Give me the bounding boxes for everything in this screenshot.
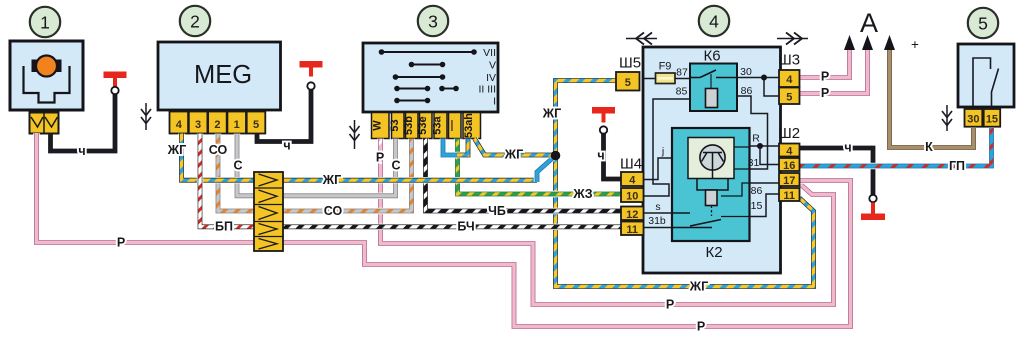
svg-text:10: 10 — [626, 191, 638, 203]
junction dot of ZhG net — [551, 151, 561, 161]
svg-text:ЖГ: ЖГ — [322, 173, 341, 187]
svg-text:11: 11 — [626, 224, 638, 236]
svg-text:I: I — [493, 96, 496, 108]
svg-text:Р: Р — [666, 298, 674, 312]
svg-text:Ш5: Ш5 — [619, 55, 641, 72]
K2 lead 86 to Sh2-17 — [750, 182, 780, 184]
relay labels K6 K2 F9 — [659, 48, 723, 262]
connector pins of component 2: 4 3 2 1 5 — [170, 112, 266, 134]
svg-text:ЖГ: ЖГ — [504, 148, 523, 162]
wire GP blue-red from Sh2-16 to comp5 pin 15 — [800, 128, 992, 166]
svg-text:5: 5 — [978, 13, 988, 33]
K6 lead 30 to Sh3 pins with junction dot — [737, 75, 779, 97]
svg-text:Р: Р — [821, 86, 829, 100]
right double-arrow mark above component 4 — [777, 33, 808, 45]
connector Sh3 pins 4 5 — [779, 70, 800, 104]
svg-text:+: + — [911, 37, 919, 52]
svg-text:II III: II III — [478, 84, 496, 96]
svg-text:Ш4: Ш4 — [620, 156, 642, 173]
wire labels left section — [78, 139, 290, 250]
svg-text:Р: Р — [117, 236, 125, 250]
svg-text:СО: СО — [324, 204, 343, 218]
svg-text:4: 4 — [176, 119, 183, 131]
wire ZhG from comp2 pin 4 through junction block to dot via blue elbow — [182, 134, 556, 183]
svg-text:4: 4 — [629, 175, 636, 187]
connector group labels Sh5 Sh4 Sh3 Sh2 — [619, 52, 800, 173]
svg-text:31b: 31b — [648, 215, 666, 227]
svg-text:3: 3 — [195, 119, 201, 131]
svg-text:86: 86 — [741, 85, 753, 97]
wire R pink from Sh3-5 to up-arrow A — [800, 48, 868, 94]
svg-text:11: 11 — [783, 190, 795, 202]
svg-text:БЧ: БЧ — [457, 220, 474, 234]
wire SO grey-orange from comp2 pin 2 through junction block to comp3 pin 53b — [218, 134, 412, 212]
relay K6 — [690, 64, 737, 112]
svg-text:2: 2 — [190, 11, 200, 31]
comp1 black wire to body terminal T1 — [51, 94, 116, 151]
K2 lead j from Sh4-4 — [644, 158, 673, 180]
K2 lead 15 to Sh2-11 — [750, 194, 780, 217]
connector pins of component 3: W 53 53b 53e 53a - 53ah — [371, 113, 480, 139]
connector Sh4 pins 4 10 12 11 — [621, 172, 644, 236]
svg-text:ЧБ: ЧБ — [488, 204, 506, 218]
body ground terminal T3 — [592, 107, 615, 134]
svg-text:К: К — [925, 140, 933, 154]
svg-text:17: 17 — [783, 175, 795, 187]
svg-text:15: 15 — [986, 114, 998, 126]
svg-text:4: 4 — [709, 11, 719, 31]
arrowhead of first pink wire — [844, 35, 855, 50]
component 1 lamp box — [10, 41, 83, 110]
svg-text:К6: К6 — [703, 48, 720, 65]
svg-text:53a: 53a — [432, 115, 444, 134]
svg-text:12: 12 — [626, 209, 638, 221]
component 2 box MEG — [158, 42, 281, 110]
svg-text:Р: Р — [821, 70, 829, 84]
svg-text:Р: Р — [376, 151, 384, 165]
wire R pink from component 1 to Sh2-17 via bottom (long run) — [37, 133, 851, 327]
svg-text:Ш2: Ш2 — [778, 125, 800, 142]
K6 lead 86 down to K2 lead 31 — [737, 96, 768, 169]
svg-text:s: s — [655, 201, 660, 213]
svg-text:F9: F9 — [659, 61, 672, 73]
svg-text:Ш3: Ш3 — [778, 52, 800, 69]
ground symbol left of pin 30 — [942, 105, 952, 131]
svg-text:53: 53 — [389, 119, 401, 131]
wire BCh white-black from junction block to Sh4-11 — [281, 224, 621, 230]
svg-text:15: 15 — [751, 200, 763, 212]
body ground terminal T2 — [300, 61, 323, 90]
svg-text:MEG: MEG — [194, 61, 252, 89]
svg-text:53e: 53e — [417, 116, 429, 134]
svg-text:А: А — [860, 8, 878, 38]
svg-text:1: 1 — [234, 119, 240, 131]
svg-text:ЖГ: ЖГ — [689, 280, 708, 294]
wire S grey from comp2 pin 1 through junction block to comp3 pin 53 — [237, 134, 396, 196]
component 5 switch box — [958, 44, 1014, 107]
svg-text:30: 30 — [740, 66, 752, 78]
svg-text:16: 16 — [783, 160, 795, 172]
K2 pin labels R 31 86 15 j s 31b — [648, 133, 762, 228]
svg-text:30: 30 — [967, 114, 979, 126]
component 4 mounting block box — [643, 47, 781, 273]
svg-text:ЖЗ: ЖЗ — [572, 187, 592, 201]
pins 30 15 of component 5 — [965, 109, 1001, 127]
svg-text:W: W — [371, 120, 383, 131]
circle label 4 — [699, 6, 729, 36]
black wire from body terminal T3 to Sh4-4 — [604, 134, 622, 179]
arrowhead of brown wire K — [884, 35, 895, 50]
connector Sh2 pins 4 16 17 11 — [779, 144, 800, 203]
circle label 5 — [968, 8, 998, 38]
svg-text:5: 5 — [253, 119, 259, 131]
wire R pink from Sh3-4 to up-arrow A — [800, 48, 850, 78]
svg-text:2: 2 — [214, 119, 220, 131]
wire blue jumper 53a to 53ah — [443, 139, 468, 156]
svg-text:R: R — [752, 133, 760, 145]
wire ZhG from 53ah diagonal to junction dot — [475, 139, 554, 156]
svg-text:5: 5 — [786, 91, 792, 103]
relay K2 — [672, 128, 750, 241]
black wire ch from Sh2-4 to right body terminal T4 — [800, 148, 874, 195]
K2 lead R to Sh2-4 with junction dot — [750, 143, 780, 149]
fuse F9 — [643, 73, 690, 84]
body ground terminal T4 (inverted) — [861, 195, 885, 220]
svg-text:87: 87 — [676, 67, 688, 79]
svg-text:ч: ч — [844, 141, 851, 155]
svg-text:31: 31 — [748, 157, 760, 169]
body ground terminal T1 — [104, 72, 127, 95]
component 3 box (switch with contact rows) — [363, 43, 498, 112]
svg-text:86: 86 — [751, 185, 763, 197]
svg-text:СО: СО — [209, 143, 228, 157]
svg-text:С: С — [391, 159, 400, 173]
svg-text:1: 1 — [40, 12, 50, 32]
svg-text:4: 4 — [786, 74, 793, 86]
svg-text:К2: К2 — [705, 244, 722, 261]
svg-text:VII: VII — [483, 47, 496, 59]
circle label 1 — [30, 7, 60, 37]
svg-text:V: V — [489, 60, 496, 72]
wire ZhZ green-yellow from comp3 dash pin to Sh4-10 — [458, 139, 622, 195]
branch from R dot to Sh2-16 — [760, 146, 779, 165]
svg-text:53ah: 53ah — [463, 113, 475, 138]
connector Sh5 pin 5 — [616, 72, 640, 91]
svg-text:85: 85 — [676, 86, 688, 98]
svg-text:ч: ч — [78, 144, 85, 158]
svg-text:IV: IV — [486, 72, 496, 84]
svg-text:Р: Р — [697, 320, 705, 334]
relay pin labels 87 30 85 86 — [676, 66, 753, 98]
ground symbol left of component 2 — [141, 103, 151, 130]
label A with plus — [860, 8, 919, 52]
comp2 wire BP white-red from pin 3 to junction block — [200, 134, 256, 227]
arrowhead of second pink wire — [862, 35, 873, 50]
wire ChB black-white from comp3 pin 53e to Sh4-12 — [426, 139, 622, 212]
svg-text:ЖГ: ЖГ — [542, 107, 561, 121]
svg-text:53b: 53b — [403, 116, 415, 135]
wire labels mid section — [322, 107, 605, 234]
junction block (connector) between comp2 and comp3 wires — [254, 172, 283, 251]
svg-text:ч: ч — [283, 139, 290, 153]
connector block of component 1 — [30, 113, 59, 134]
K2 lead s from Sh4-12 — [644, 212, 673, 214]
svg-text:—: — — [446, 120, 458, 131]
svg-text:4: 4 — [786, 146, 793, 158]
svg-text:С: С — [233, 159, 242, 173]
svg-text:j: j — [661, 146, 664, 158]
svg-text:3: 3 — [428, 11, 438, 31]
svg-text:ч: ч — [597, 149, 604, 163]
wire R (pink/white) from comp3 pin W to Sh2-17 via bottom — [381, 139, 834, 305]
svg-text:ГП: ГП — [949, 159, 965, 173]
wire labels right section — [821, 70, 965, 174]
svg-text:ЖГ: ЖГ — [167, 143, 186, 157]
ground symbol left of component 3 — [350, 120, 360, 149]
comp2 black wire from pin 5 to body terminal T2 — [257, 90, 311, 142]
svg-text:5: 5 — [625, 77, 631, 89]
K2 lead 31b from Sh4-11 — [644, 227, 673, 229]
svg-text:БП: БП — [215, 220, 233, 234]
circle label 3 — [418, 6, 448, 36]
circle label 2 — [180, 6, 210, 36]
wire ZHG net: Sh5-5 to junction dot down to bottom U and up to Sh2-11 — [556, 81, 814, 287]
wire labels bottom runs — [666, 280, 708, 334]
left double-arrow mark above component 4 — [626, 33, 657, 45]
K6 lead 85 to Sh4-10 — [644, 99, 691, 196]
wire K brown from comp5 pin 30 to up-arrow — [890, 48, 974, 148]
